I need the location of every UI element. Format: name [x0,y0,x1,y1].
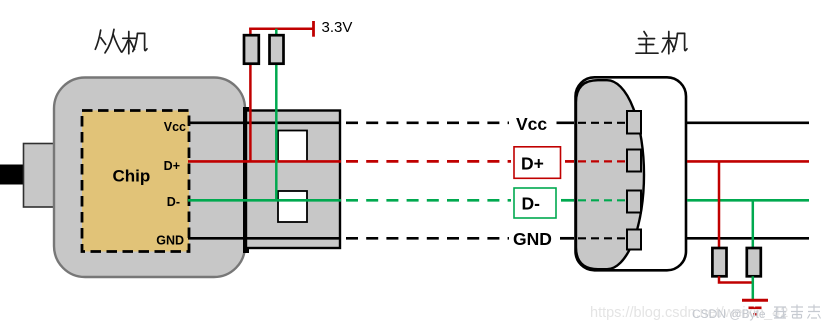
host connector contact carrier [576,80,644,269]
host title 主机 [636,32,687,54]
host pin 3 [627,191,641,213]
host pin 1 [627,111,641,134]
slave title 从机 [95,29,147,54]
chip U1 [82,111,189,252]
plug shell [246,111,340,249]
net label D- box [514,188,556,218]
watermark 轻骑兵 glyphs [774,305,821,319]
3.3V terminal tick [312,21,315,37]
svg-text:GND: GND [513,229,552,249]
wire GND dashed inside host [578,237,628,239]
wire pull-up red vertical [249,28,252,162]
wire R4 bottom to ground [752,276,755,299]
wire pull-down green vertical [752,200,755,250]
svg-text:CSDN @Byte: CSDN @Byte [692,307,766,321]
svg-text:GND: GND [156,234,184,248]
wire Vcc dashed inside host [578,122,628,124]
svg-text:Vcc: Vcc [516,114,547,134]
svg-text:D+: D+ [521,153,544,173]
wire GND dash after label [560,237,574,240]
cable stub [0,165,23,185]
wire D- dash after label [561,199,574,202]
wire GND dashed bus [346,237,509,240]
wire pull-up green vertical [275,29,278,201]
plug hole 2 [278,191,307,222]
wire Vcc dashed bus [346,121,509,124]
resistor R2 [270,35,284,64]
plug flange [243,107,249,253]
plug hole 1 [278,131,307,162]
svg-text:D-: D- [167,195,180,209]
wire D- chip to plug [188,199,341,202]
host pin 2 [627,150,641,172]
svg-text:D-: D- [522,194,541,214]
wire D+ host to right [687,160,809,163]
cable strain relief [24,144,56,208]
wire D- dashed inside host [578,199,628,201]
wire D+ dashed bus [346,160,511,163]
net label D+ box [514,147,561,179]
resistor R3 [712,248,726,276]
wire D+ chip to plug [188,160,341,163]
wire Vcc chip to plug [188,122,341,125]
host pin 4 [627,230,641,250]
wire 3.3V rail horizontal [249,28,313,31]
wire D- host to right [687,199,809,202]
wire D+ dashed inside host [578,160,628,162]
wire R3 bottom to ground node [719,276,753,282]
svg-text:Chip: Chip [113,167,151,186]
wire D+ dash after label [565,160,574,163]
wire GND chip to plug [188,237,341,240]
host connector outline [576,77,687,270]
resistor R1 [244,35,259,64]
svg-text:Vcc: Vcc [164,120,186,134]
resistor R4 [747,248,761,276]
wire pull-down red vertical [718,161,721,250]
svg-text:D+: D+ [164,159,180,173]
wire GND host to right [687,237,809,240]
ground symbol [742,300,768,314]
svg-text:3.3V: 3.3V [322,19,353,36]
wire D- dashed bus [346,199,511,202]
wire Vcc dash after label [557,121,575,124]
wire Vcc host to right [687,122,809,125]
slave connector body [54,78,245,278]
